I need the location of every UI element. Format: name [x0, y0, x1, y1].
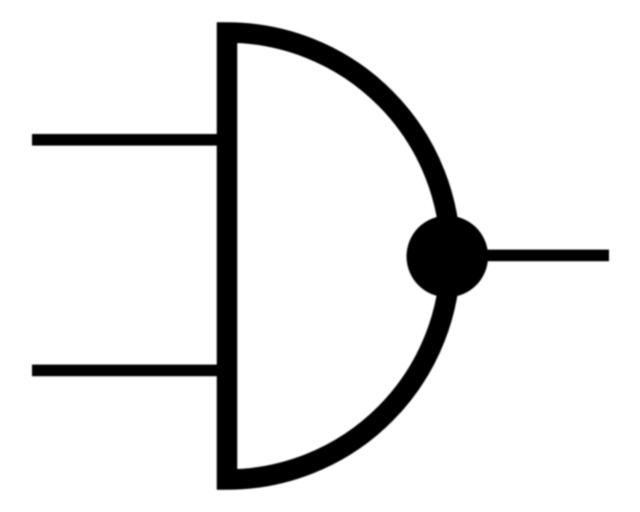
inversion dot (output bubble, filled) [407, 216, 489, 298]
gate U1 (AND body, D-shape) [227, 33, 450, 480]
wire input A (top) [32, 134, 218, 146]
wire input B (bottom) [32, 365, 218, 377]
wire output [487, 250, 609, 262]
